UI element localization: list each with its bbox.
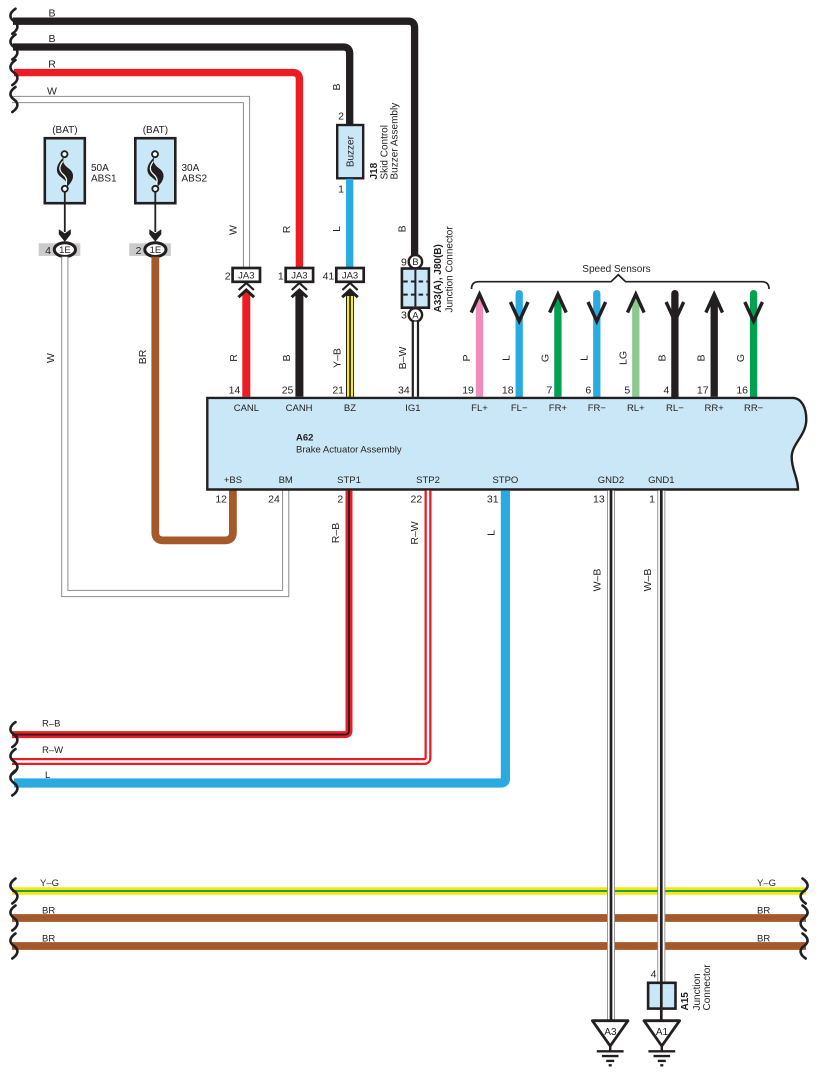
svg-text:ABS2: ABS2: [182, 173, 208, 184]
svg-text:W: W: [47, 86, 57, 98]
svg-text:IG1: IG1: [405, 403, 420, 414]
svg-text:1: 1: [649, 494, 655, 506]
speed sensors brace: [472, 275, 770, 289]
svg-text:A15: A15: [680, 992, 691, 1011]
wire R-W STP2: [12, 491, 428, 762]
wire R (to junction JA3 1): [14, 73, 299, 269]
svg-text:L: L: [578, 355, 590, 361]
svg-text:CANL: CANL: [234, 403, 259, 414]
svg-text:RL+: RL+: [627, 403, 645, 414]
svg-text:BR: BR: [137, 349, 149, 364]
wire B2 (to buzzer pin 2): [13, 47, 350, 126]
buzzer J18: [337, 103, 400, 196]
wire BR (1E pin2 to A62 pin 12 +BS): [155, 257, 233, 541]
wire B JA3-1 to CANH: [295, 288, 303, 397]
svg-text:BR: BR: [42, 906, 55, 917]
break squiggle wire R: [10, 60, 17, 85]
svg-text:Buzzer Assembly: Buzzer Assembly: [390, 103, 401, 180]
ground A1: [644, 1021, 680, 1066]
svg-text:P: P: [461, 354, 473, 361]
junction JA3 pin 1: [278, 268, 313, 297]
svg-text:1: 1: [278, 270, 284, 282]
svg-text:6: 6: [585, 385, 591, 397]
svg-text:(BAT): (BAT): [143, 125, 168, 136]
svg-text:BZ: BZ: [344, 403, 356, 414]
wire BR horizontal 2: [12, 942, 806, 950]
svg-text:Y–B: Y–B: [332, 348, 344, 368]
svg-text:FL+: FL+: [471, 403, 488, 414]
svg-text:A62: A62: [296, 433, 313, 444]
svg-text:Buzzer: Buzzer: [346, 135, 357, 167]
wire Y-B JA3-41 to BZ: [346, 288, 354, 397]
svg-text:R: R: [228, 354, 240, 362]
svg-text:19: 19: [462, 385, 474, 397]
svg-text:12: 12: [215, 494, 227, 506]
svg-text:31: 31: [487, 494, 499, 506]
svg-text:L: L: [331, 226, 343, 232]
svg-text:STP1: STP1: [337, 475, 361, 486]
svg-text:4: 4: [651, 969, 657, 981]
svg-text:(BAT): (BAT): [52, 125, 77, 136]
svg-text:W: W: [228, 225, 240, 235]
svg-text:4: 4: [663, 385, 669, 397]
svg-text:JA3: JA3: [291, 271, 307, 282]
svg-text:ABS1: ABS1: [91, 173, 117, 184]
svg-text:5: 5: [624, 385, 630, 397]
svg-text:LG: LG: [617, 351, 629, 365]
svg-text:Connector: Connector: [702, 964, 713, 1011]
wire B-W circle A to IG1: [412, 322, 419, 397]
svg-text:2: 2: [337, 494, 343, 506]
svg-text:L: L: [45, 770, 50, 781]
svg-text:FR−: FR−: [588, 403, 607, 414]
svg-text:B: B: [48, 33, 55, 45]
connector A15 junction connector: [648, 964, 713, 1021]
wire Y-G horizontal: [12, 887, 806, 895]
svg-text:1: 1: [338, 184, 344, 196]
svg-text:L: L: [485, 530, 497, 536]
svg-text:RR+: RR+: [705, 403, 725, 414]
svg-text:Speed Sensors: Speed Sensors: [582, 264, 650, 275]
ground A3: [592, 1021, 628, 1066]
wire L FL-: [516, 294, 523, 397]
break squiggle R-B: [10, 722, 17, 747]
fuse 30A ABS2: [135, 125, 207, 242]
svg-text:BR: BR: [42, 934, 55, 945]
svg-text:A3: A3: [604, 1027, 617, 1038]
svg-text:30A: 30A: [182, 163, 200, 174]
svg-text:Y–G: Y–G: [40, 878, 59, 889]
wire BR horizontal 1: [12, 914, 806, 922]
svg-text:9: 9: [401, 256, 407, 268]
svg-text:1E: 1E: [150, 245, 162, 256]
svg-text:24: 24: [268, 494, 280, 506]
svg-text:STP2: STP2: [416, 475, 440, 486]
svg-text:BR: BR: [757, 906, 770, 917]
break squiggle wire B2: [10, 35, 17, 60]
svg-text:L: L: [501, 355, 513, 361]
wire L STPO: [14, 491, 505, 784]
wire G RR-: [750, 294, 757, 397]
break squiggle R-W: [10, 749, 17, 774]
svg-text:A33(A), J80(B): A33(A), J80(B): [433, 244, 444, 312]
break squiggle wire B1: [10, 9, 17, 34]
svg-text:Junction Connector: Junction Connector: [445, 226, 456, 313]
svg-text:21: 21: [332, 385, 344, 397]
svg-text:RR−: RR−: [744, 403, 764, 414]
svg-text:W–B: W–B: [592, 569, 604, 592]
svg-text:3: 3: [401, 310, 407, 322]
svg-text:W: W: [45, 353, 57, 363]
svg-text:2: 2: [225, 270, 231, 282]
svg-text:2: 2: [136, 245, 142, 257]
svg-text:R–W: R–W: [42, 745, 63, 756]
svg-text:FL−: FL−: [511, 403, 528, 414]
connector 1E pin 2: [129, 243, 171, 257]
svg-text:R–B: R–B: [330, 523, 342, 543]
svg-text:A1: A1: [656, 1027, 669, 1038]
svg-text:B: B: [281, 354, 293, 361]
wire B RR+: [711, 295, 718, 397]
wire L buzzer to JA3 41: [346, 179, 353, 268]
svg-text:Brake Actuator Assembly: Brake Actuator Assembly: [296, 445, 402, 456]
junction connector A33(A) J80(B): [401, 226, 456, 322]
wire R-B STP1: [12, 491, 349, 735]
svg-text:B: B: [696, 354, 708, 361]
svg-text:1E: 1E: [59, 245, 71, 256]
svg-text:34: 34: [398, 385, 410, 397]
svg-text:Y–G: Y–G: [757, 878, 776, 889]
wire W (to junction JA3 2): [12, 100, 247, 269]
svg-text:4: 4: [45, 245, 51, 257]
svg-text:14: 14: [229, 385, 241, 397]
break squiggle wire W: [10, 87, 17, 112]
svg-text:GND2: GND2: [598, 475, 624, 486]
wire W loop (1E pin4 to A62 pin 24 BM): [65, 257, 286, 594]
svg-text:22: 22: [411, 494, 423, 506]
svg-text:FR+: FR+: [549, 403, 568, 414]
svg-text:RL−: RL−: [666, 403, 684, 414]
svg-text:W–B: W–B: [642, 569, 654, 592]
junction JA3 pin 41: [323, 268, 364, 297]
wire P FL+: [476, 295, 483, 397]
svg-text:17: 17: [697, 385, 709, 397]
svg-text:25: 25: [282, 385, 294, 397]
svg-text:BR: BR: [757, 934, 770, 945]
svg-text:2: 2: [338, 111, 344, 123]
svg-text:B: B: [656, 354, 668, 361]
svg-text:16: 16: [736, 385, 748, 397]
wire B1 (top battery feed): [13, 21, 415, 255]
svg-text:CANH: CANH: [286, 403, 313, 414]
svg-text:13: 13: [593, 494, 605, 506]
wire L FR-: [593, 294, 600, 397]
svg-text:+BS: +BS: [224, 475, 242, 486]
svg-text:R: R: [281, 225, 293, 233]
svg-text:A: A: [412, 310, 419, 321]
svg-text:STPO: STPO: [492, 475, 518, 486]
svg-text:B: B: [397, 225, 409, 232]
fuse 50A ABS1: [45, 125, 117, 242]
svg-text:R–B: R–B: [42, 718, 60, 729]
wire LG RL+: [632, 295, 639, 397]
svg-text:18: 18: [502, 385, 514, 397]
svg-text:B: B: [331, 83, 343, 90]
svg-text:G: G: [539, 354, 551, 362]
break squiggle L: [10, 771, 17, 796]
svg-text:41: 41: [323, 270, 335, 282]
svg-text:BM: BM: [279, 475, 293, 486]
wire G FR+: [554, 295, 561, 397]
A62 Brake Actuator Assembly box: [207, 398, 806, 490]
wire B RL-: [671, 294, 678, 397]
wire W-B GND1: [657, 491, 665, 984]
svg-text:R: R: [48, 59, 56, 71]
svg-text:JA3: JA3: [238, 271, 254, 282]
svg-text:7: 7: [546, 385, 552, 397]
svg-text:GND1: GND1: [648, 475, 674, 486]
svg-text:B–W: B–W: [397, 347, 409, 370]
wire R JA3-2 to CANL: [242, 288, 250, 397]
svg-text:JA3: JA3: [342, 271, 358, 282]
svg-text:R–W: R–W: [409, 521, 421, 544]
junction JA3 pin 2: [225, 268, 260, 297]
wire W-B GND2: [607, 491, 615, 1021]
svg-text:G: G: [735, 354, 747, 362]
connector 1E pin 4: [39, 243, 81, 257]
svg-text:J18: J18: [369, 162, 380, 179]
svg-text:50A: 50A: [91, 163, 109, 174]
svg-text:B: B: [412, 257, 418, 268]
svg-text:B: B: [48, 7, 55, 19]
